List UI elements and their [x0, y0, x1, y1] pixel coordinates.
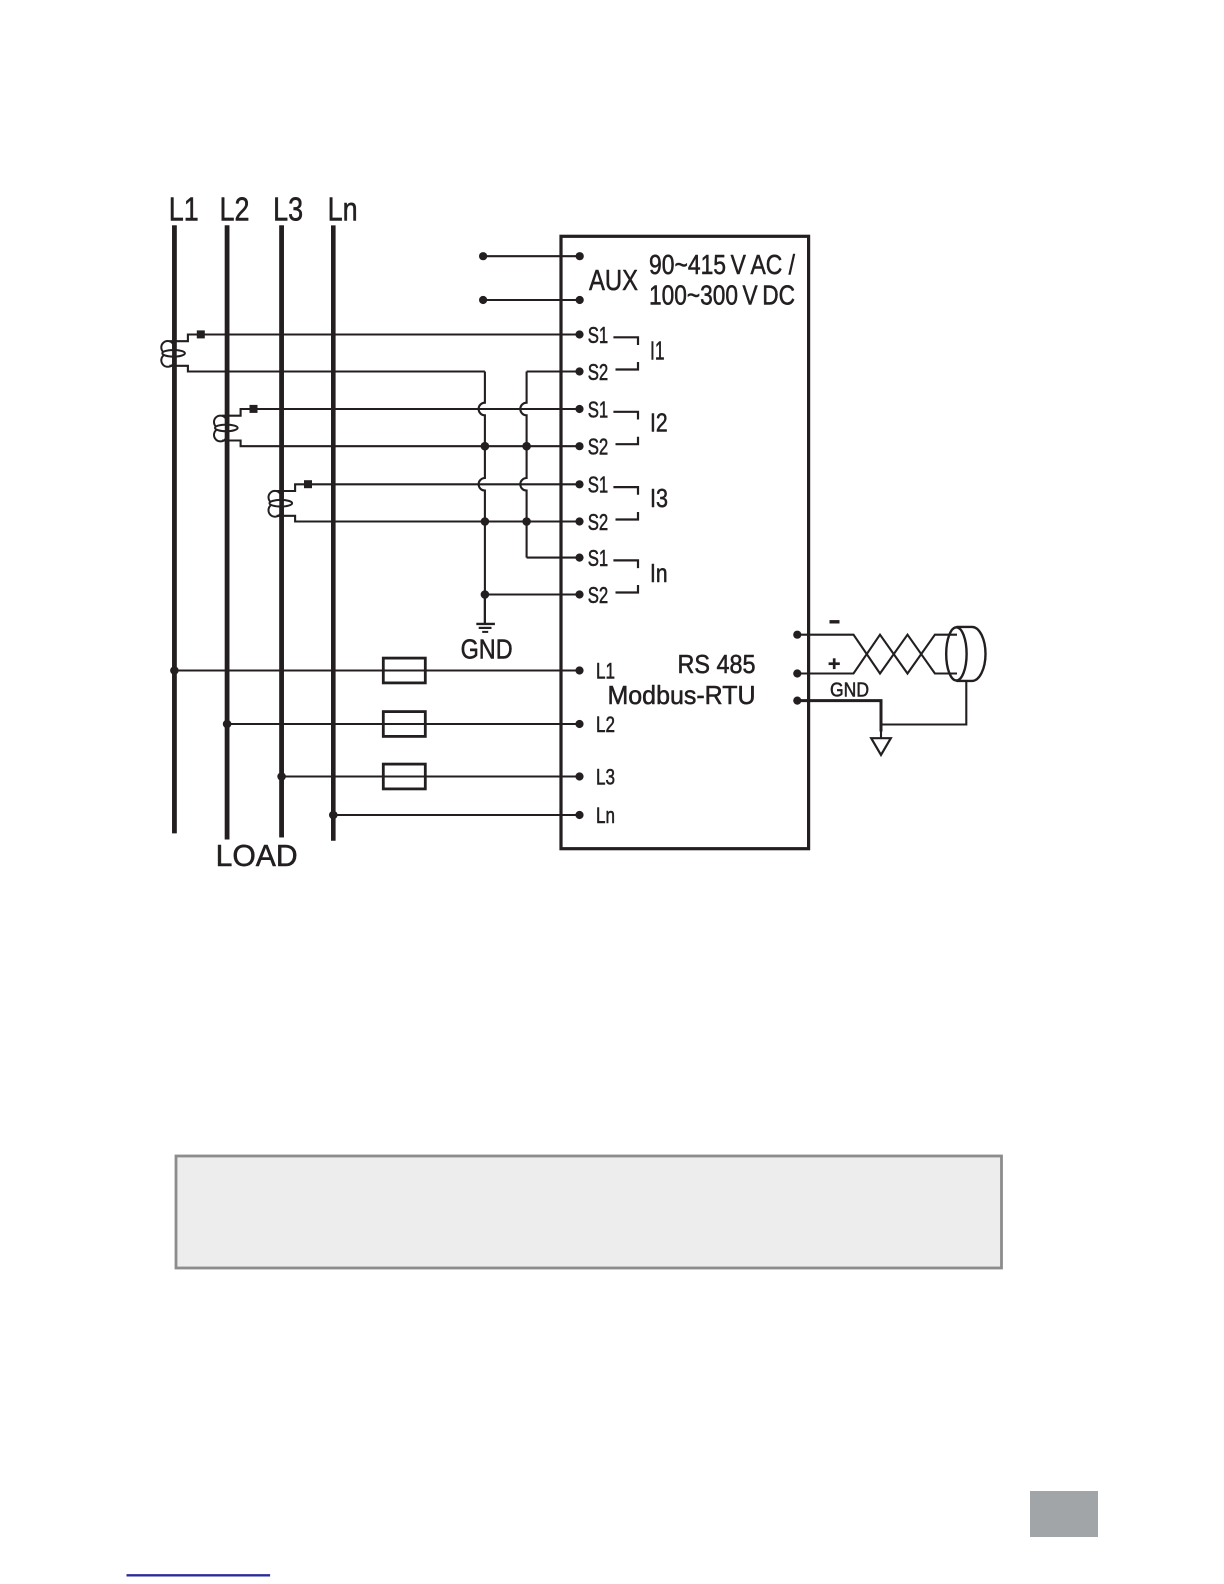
svg-text:Ln: Ln: [596, 803, 615, 828]
svg-text:L3: L3: [596, 764, 615, 789]
svg-text:L2: L2: [220, 191, 250, 228]
svg-text:S1: S1: [588, 545, 609, 571]
svg-text:S2: S2: [588, 582, 609, 608]
svg-text:Ln: Ln: [328, 191, 358, 228]
svg-text:S1: S1: [588, 322, 609, 348]
svg-text:90~415 V AC /: 90~415 V AC /: [649, 249, 795, 280]
svg-text:GND: GND: [830, 678, 869, 701]
svg-text:LOAD: LOAD: [216, 838, 298, 873]
svg-text:I1: I1: [650, 336, 665, 366]
svg-text:RS 485: RS 485: [678, 649, 756, 679]
svg-text:L3: L3: [273, 191, 303, 228]
svg-text:I2: I2: [650, 408, 668, 438]
svg-text:S2: S2: [588, 359, 609, 385]
svg-text:I3: I3: [650, 483, 668, 513]
svg-text:S1: S1: [588, 472, 609, 498]
svg-text:L1: L1: [169, 191, 199, 228]
svg-text:In: In: [650, 558, 668, 588]
svg-text:S1: S1: [588, 396, 609, 422]
svg-text:AUX: AUX: [589, 265, 638, 297]
svg-text:S2: S2: [588, 509, 609, 535]
svg-text:L2: L2: [596, 712, 615, 737]
svg-text:S2: S2: [588, 434, 609, 460]
svg-text:GND: GND: [461, 633, 513, 664]
svg-text:100~300 V DC: 100~300 V DC: [649, 280, 795, 311]
svg-text:Modbus-RTU: Modbus-RTU: [608, 680, 756, 710]
